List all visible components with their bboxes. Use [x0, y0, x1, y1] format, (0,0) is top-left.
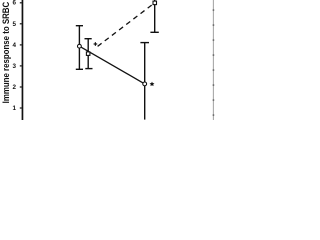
svg-text:2: 2	[12, 84, 16, 91]
svg-text:4: 4	[12, 42, 16, 49]
svg-text:3: 3	[12, 63, 16, 70]
svg-text:1: 1	[12, 105, 16, 112]
svg-text:Immune response to SRBC: Immune response to SRBC	[1, 1, 11, 103]
svg-text:6: 6	[12, 0, 16, 7]
svg-text:5: 5	[12, 21, 16, 28]
